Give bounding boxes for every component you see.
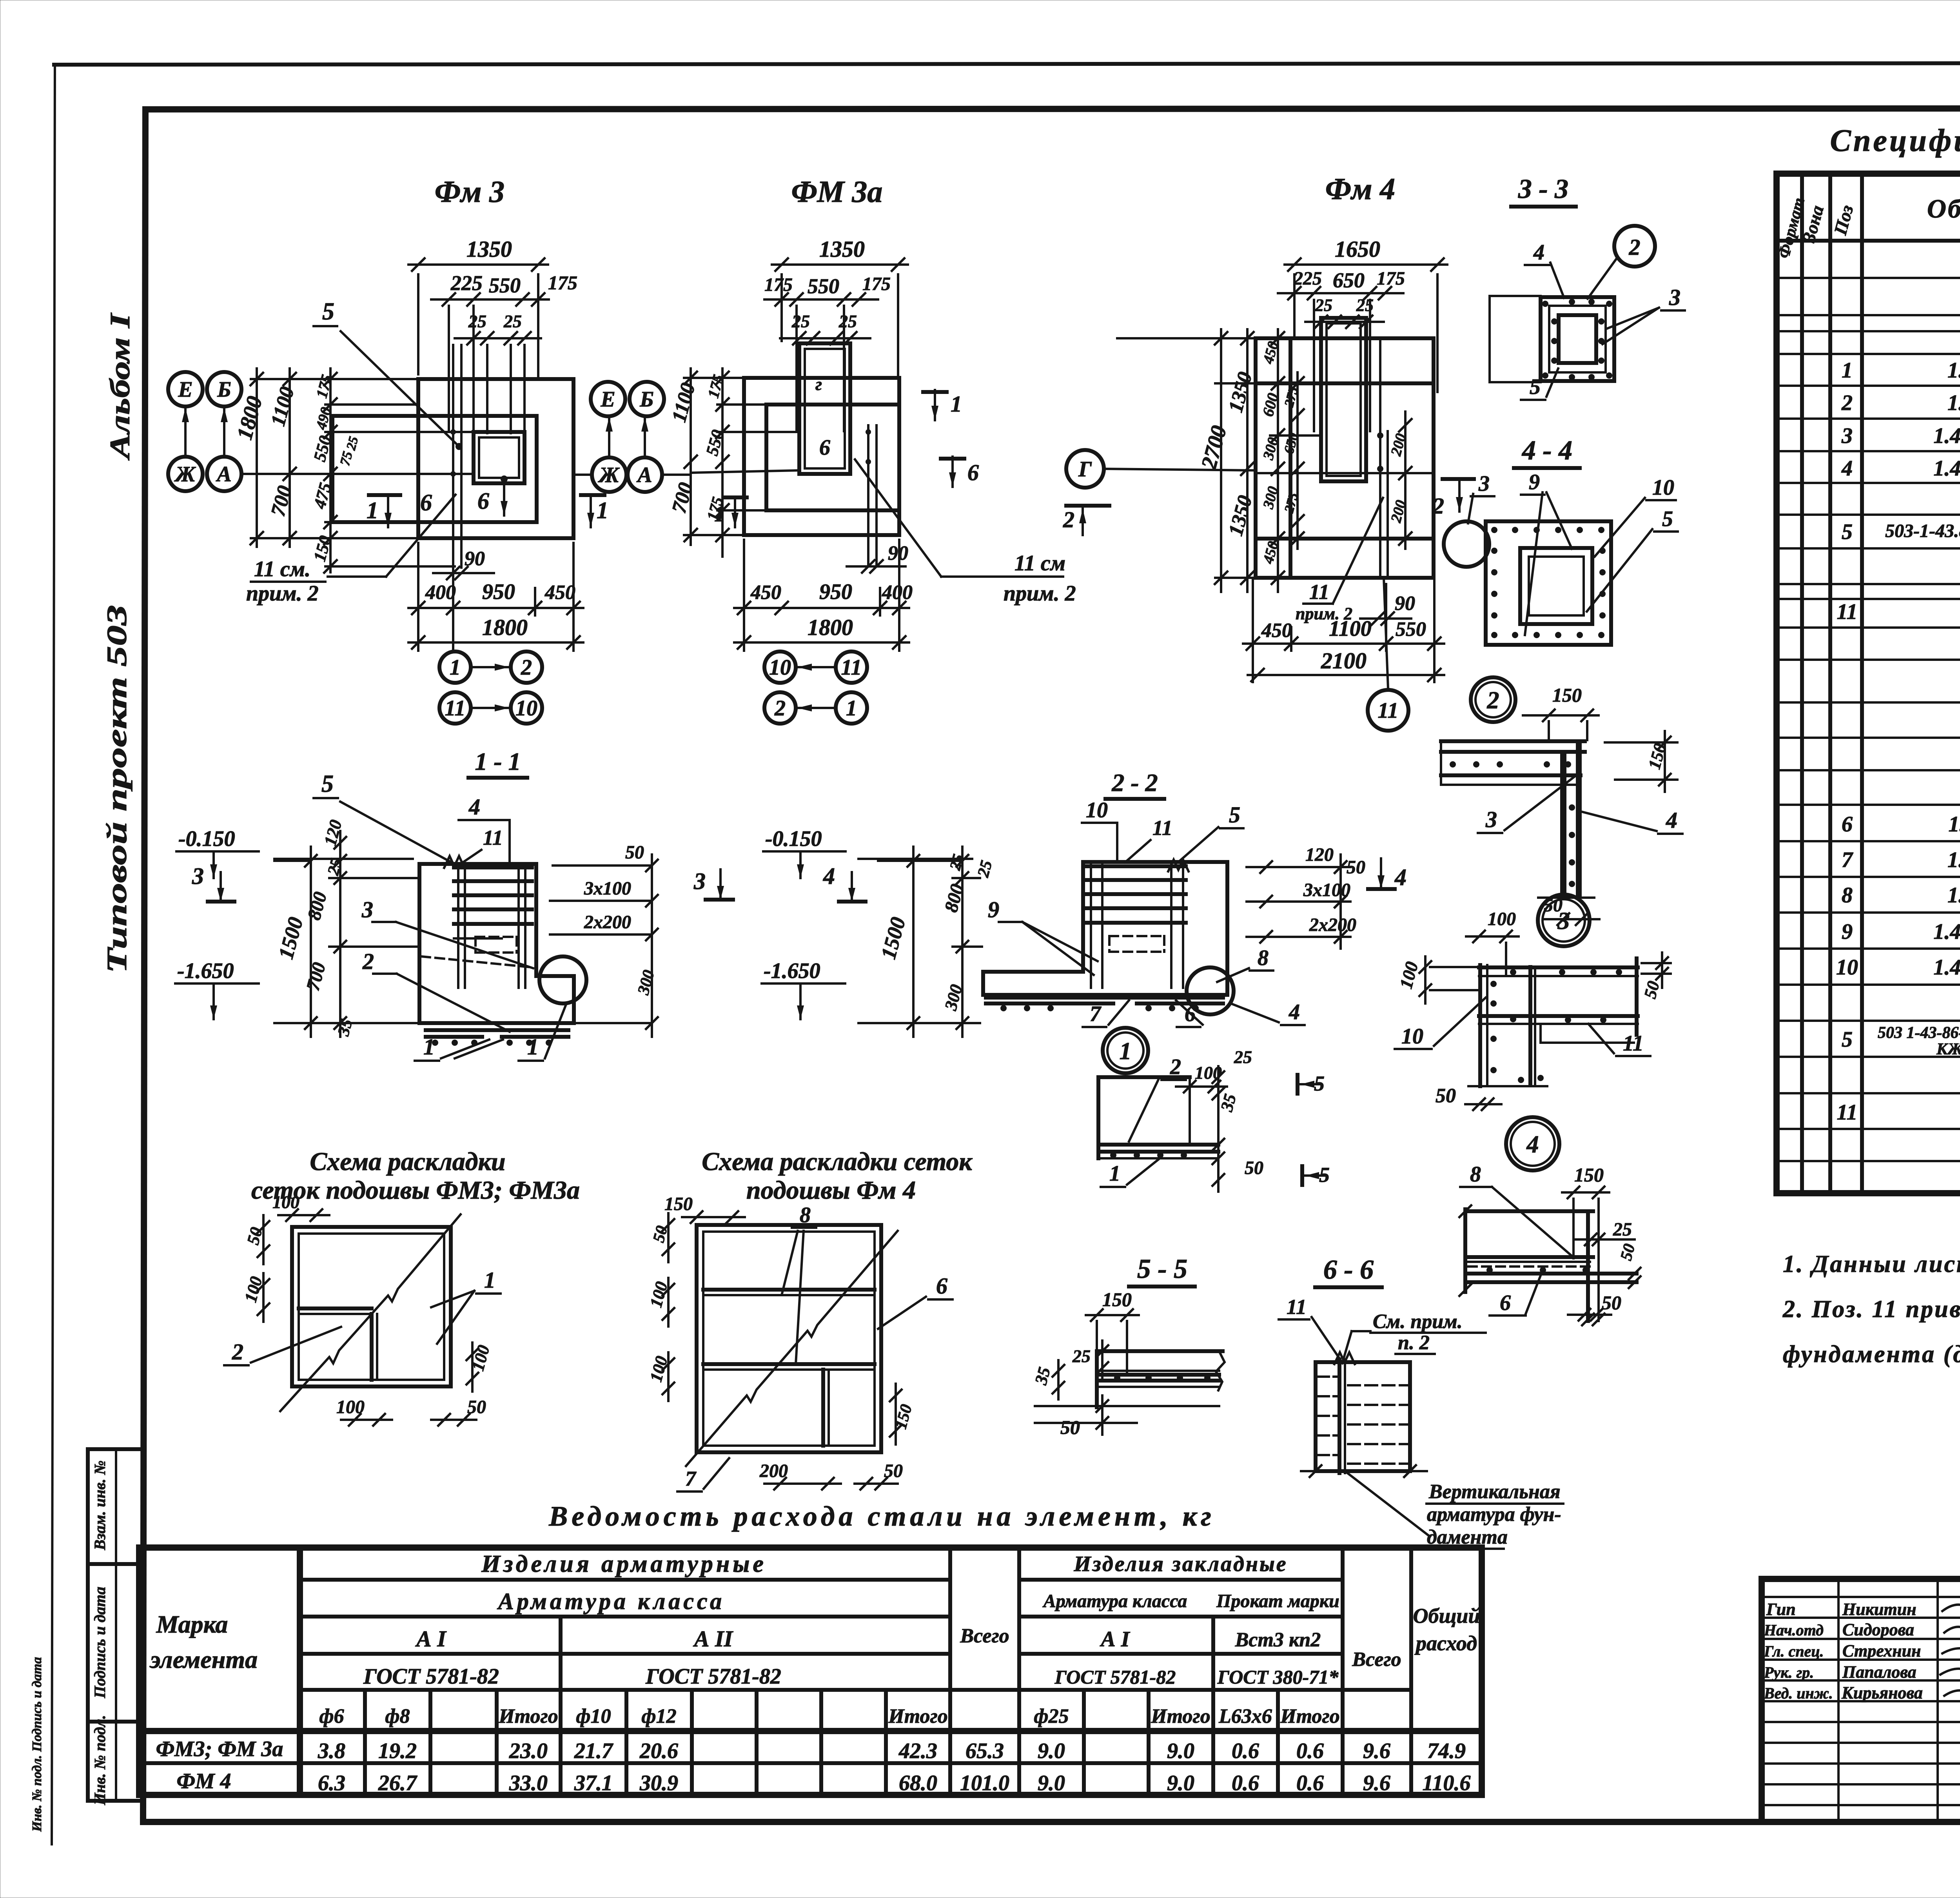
- svg-text:4: 4: [1289, 1000, 1300, 1024]
- svg-text:21.7: 21.7: [574, 1739, 613, 1763]
- svg-text:11: 11: [1837, 1100, 1858, 1125]
- svg-text:фундамента (для молниеотвода): фундамента (для молниеотвода).: [1783, 1341, 1960, 1368]
- svg-text:4: 4: [1394, 864, 1406, 890]
- svg-text:А I: А I: [1100, 1627, 1130, 1651]
- svg-text:800: 800: [303, 890, 331, 922]
- svg-text:2: 2: [774, 696, 786, 720]
- svg-text:25: 25: [974, 858, 996, 879]
- svg-text:1800: 1800: [808, 615, 853, 640]
- svg-text:1: 1: [1842, 358, 1853, 383]
- svg-text:прим. 2: прим. 2: [246, 581, 319, 606]
- svg-text:4: 4: [1666, 807, 1677, 833]
- svg-text:Ведомость расхода стали н: Ведомость расхода стали на элемент, кг: [548, 1501, 1215, 1532]
- svg-text:1: 1: [951, 391, 962, 417]
- svg-text:0.6: 0.6: [1232, 1771, 1259, 1795]
- svg-text:2: 2: [1841, 391, 1853, 415]
- svg-text:2х200: 2х200: [1309, 915, 1356, 935]
- svg-text:1: 1: [527, 1034, 539, 1060]
- notes: [1782, 1251, 1960, 1368]
- svg-text:65.3: 65.3: [965, 1739, 1004, 1763]
- svg-text:2: 2: [1629, 234, 1641, 260]
- svg-text:2х200: 2х200: [584, 912, 631, 933]
- svg-text:90: 90: [1395, 592, 1415, 615]
- svg-text:100: 100: [1396, 960, 1422, 991]
- svg-text:3: 3: [192, 863, 204, 889]
- svg-text:700: 700: [302, 960, 330, 993]
- svg-text:ГОСТ 5781-82: ГОСТ 5781-82: [1054, 1666, 1176, 1688]
- svg-text:25: 25: [503, 311, 522, 331]
- svg-text:3: 3: [1485, 807, 1497, 832]
- section 5-5: [1031, 1254, 1225, 1438]
- svg-text:9: 9: [988, 897, 999, 922]
- svg-text:6: 6: [936, 1273, 947, 1299]
- svg-text:25: 25: [1315, 296, 1332, 315]
- bottom-left attribute boxes: [30, 1449, 144, 1832]
- svg-text:1350: 1350: [1225, 370, 1257, 415]
- svg-text:-0.150: -0.150: [178, 827, 235, 851]
- svg-text:68.0: 68.0: [899, 1771, 937, 1795]
- svg-text:1500: 1500: [877, 915, 910, 962]
- svg-text:100: 100: [336, 1397, 365, 1417]
- svg-text:50: 50: [1640, 979, 1663, 1000]
- svg-text:25: 25: [1234, 1047, 1252, 1067]
- svg-text:1: 1: [1109, 1161, 1120, 1186]
- svg-text:175: 175: [312, 373, 336, 400]
- svg-text:п. 2: п. 2: [1398, 1332, 1430, 1354]
- svg-text:225: 225: [1293, 268, 1322, 289]
- scheme раскладки сеток ФМ3: [224, 1147, 580, 1426]
- svg-text:элемента: элемента: [149, 1646, 258, 1673]
- svg-text:503-1-43.86-КНЧ-МН24.МН25: 503-1-43.86-КНЧ-МН24.МН25: [1885, 521, 1960, 541]
- svg-text:120: 120: [1305, 844, 1334, 865]
- ФМ4 foundation plan: [1063, 172, 1474, 731]
- section 6-6: [1279, 1255, 1563, 1549]
- svg-text:Поз: Поз: [1830, 203, 1857, 238]
- svg-text:100: 100: [1488, 909, 1516, 929]
- section 4-4: [1444, 435, 1678, 645]
- svg-text:50: 50: [467, 1397, 486, 1417]
- svg-text:А: А: [636, 463, 652, 487]
- svg-text:42.3: 42.3: [898, 1739, 937, 1763]
- svg-text:150: 150: [1102, 1288, 1132, 1310]
- svg-text:11: 11: [483, 826, 503, 849]
- svg-text:арматура фун-: арматура фун-: [1427, 1503, 1561, 1526]
- svg-text:2: 2: [1432, 493, 1444, 519]
- svg-text:8: 8: [800, 1203, 811, 1227]
- svg-text:Схема раскладки сеток: Схема раскладки сеток: [702, 1147, 973, 1176]
- svg-text:5 - 5: 5 - 5: [1137, 1254, 1187, 1284]
- svg-text:37.1: 37.1: [574, 1771, 613, 1795]
- svg-text:5: 5: [1314, 1072, 1325, 1095]
- svg-text:Изделия закладные: Изделия закладные: [1073, 1552, 1287, 1576]
- svg-text:Прокат марки: Прокат марки: [1216, 1591, 1339, 1611]
- svg-text:8: 8: [1842, 883, 1853, 907]
- svg-text:3х100: 3х100: [584, 878, 631, 899]
- svg-text:6 - 6: 6 - 6: [1323, 1255, 1374, 1285]
- svg-text:11: 11: [1287, 1295, 1307, 1319]
- svg-text:11: 11: [1837, 600, 1858, 624]
- svg-text:Сидорова: Сидорова: [1842, 1620, 1914, 1639]
- svg-text:1: 1: [367, 497, 378, 523]
- svg-text:Подпись и дата: Подпись и дата: [91, 1587, 109, 1698]
- svg-text:1100: 1100: [668, 381, 700, 425]
- svg-text:150: 150: [1574, 1164, 1604, 1186]
- svg-text:4 - 4: 4 - 4: [1521, 435, 1572, 466]
- svg-text:3: 3: [1841, 424, 1853, 448]
- svg-text:25: 25: [838, 311, 857, 331]
- svg-text:сеток подошвы ФМ3; ФМ3а: сеток подошвы ФМ3; ФМ3а: [251, 1176, 580, 1205]
- svg-text:Гл. спец.: Гл. спец.: [1764, 1642, 1824, 1660]
- svg-text:Инв. № подл.: Инв. № подл.: [91, 1715, 109, 1805]
- svg-text:ф25: ф25: [1034, 1705, 1069, 1727]
- horizontal header lines: [300, 1578, 950, 1582]
- svg-text:Е: Е: [178, 377, 192, 402]
- svg-text:11: 11: [1152, 816, 1172, 840]
- svg-text:26.7: 26.7: [378, 1771, 417, 1795]
- svg-text:1: 1: [597, 497, 608, 523]
- svg-text:11: 11: [1309, 580, 1329, 604]
- svg-text:4: 4: [1526, 1131, 1539, 1158]
- svg-text:Папалова: Папалова: [1842, 1662, 1916, 1682]
- svg-text:23.0: 23.0: [509, 1739, 548, 1763]
- svg-text:2700: 2700: [1196, 423, 1231, 472]
- svg-text:2100: 2100: [1321, 648, 1367, 673]
- svg-text:1.412-1/77 вып.3: 1.412-1/77 вып.3: [1933, 955, 1960, 980]
- svg-text:1: 1: [484, 1267, 495, 1293]
- svg-text:74.9: 74.9: [1427, 1739, 1466, 1763]
- svg-text:50: 50: [884, 1461, 903, 1481]
- svg-text:А: А: [216, 462, 231, 486]
- svg-text:ГОСТ 380-71*: ГОСТ 380-71*: [1217, 1666, 1339, 1688]
- svg-text:11 см: 11 см: [1014, 551, 1065, 575]
- svg-text:ф6: ф6: [319, 1705, 344, 1727]
- svg-text:9: 9: [1529, 470, 1540, 494]
- svg-text:Инв. № подл. Подпись и дата: Инв. № подл. Подпись и дата: [30, 1657, 44, 1832]
- svg-text:9.0: 9.0: [1038, 1771, 1065, 1795]
- svg-text:3: 3: [361, 897, 373, 922]
- svg-text:1650: 1650: [1335, 236, 1380, 262]
- svg-text:101.0: 101.0: [960, 1771, 1009, 1795]
- svg-text:175: 175: [548, 272, 577, 294]
- svg-text:Вст3 кп2: Вст3 кп2: [1235, 1629, 1321, 1651]
- svg-text:1: 1: [846, 696, 857, 720]
- svg-text:3: 3: [1669, 285, 1681, 310]
- svg-text:5: 5: [1229, 802, 1240, 827]
- detail 1: [1098, 1028, 1330, 1192]
- svg-text:прим. 2: прим. 2: [1004, 581, 1076, 606]
- svg-text:расход: расход: [1414, 1631, 1477, 1655]
- svg-text:Итого: Итого: [888, 1705, 947, 1727]
- svg-text:Спецификация фундаментов Фм3: Спецификация фундаментов Фм3, Фм4: [1830, 123, 1960, 158]
- svg-text:Всего: Всего: [960, 1625, 1009, 1647]
- svg-text:См. прим.: См. прим.: [1373, 1310, 1463, 1333]
- section 2-2: [762, 769, 1406, 1037]
- svg-text:2: 2: [1170, 1055, 1181, 1079]
- svg-text:25: 25: [344, 435, 361, 452]
- svg-text:19.2: 19.2: [378, 1739, 417, 1763]
- svg-text:Общий: Общий: [1413, 1604, 1480, 1628]
- verticals: [365, 1548, 1411, 1795]
- svg-text:10: 10: [769, 655, 791, 680]
- svg-text:Арматура класса: Арматура класса: [1042, 1591, 1187, 1611]
- svg-text:Типовой проект 503: Типовой проект 503: [101, 605, 132, 973]
- svg-text:700: 700: [267, 483, 296, 519]
- svg-text:Рук. гр.: Рук. гр.: [1764, 1664, 1814, 1681]
- svg-text:25: 25: [1072, 1346, 1091, 1366]
- svg-text:50: 50: [1617, 1242, 1639, 1262]
- svg-text:225: 225: [450, 271, 483, 295]
- svg-text:4: 4: [1841, 456, 1853, 481]
- svg-text:Итого: Итого: [1151, 1705, 1210, 1727]
- svg-text:8: 8: [1258, 946, 1269, 970]
- section 1-1: [175, 748, 733, 1061]
- svg-text:КЖИ МН24.МН25: КЖИ МН24.МН25: [1936, 1040, 1960, 1058]
- svg-text:2. Поз. 11 приварить к вер: 2. Поз. 11 приварить к вертикальной арма…: [1782, 1296, 1960, 1323]
- svg-text:150: 150: [664, 1194, 693, 1214]
- svg-text:-0.150: -0.150: [765, 827, 822, 851]
- svg-text:ГОСТ 5781-82: ГОСТ 5781-82: [645, 1664, 781, 1689]
- svg-text:50: 50: [1245, 1158, 1263, 1178]
- svg-text:3: 3: [1557, 908, 1570, 934]
- svg-text:8: 8: [1470, 1162, 1481, 1187]
- svg-text:Схема раскладки: Схема раскладки: [310, 1147, 505, 1176]
- svg-text:5: 5: [1842, 1027, 1853, 1052]
- detail 3: [1395, 895, 1671, 1110]
- svg-text:0.6: 0.6: [1232, 1739, 1259, 1763]
- svg-text:9.0: 9.0: [1167, 1771, 1194, 1795]
- svg-text:175: 175: [764, 274, 793, 295]
- svg-text:2: 2: [1487, 687, 1499, 714]
- svg-text:9.0: 9.0: [1167, 1739, 1194, 1763]
- svg-text:700: 700: [668, 480, 697, 515]
- svg-text:1.412-1/77 вып.3: 1.412-1/77 вып.3: [1933, 424, 1960, 448]
- svg-text:10: 10: [1086, 798, 1108, 822]
- svg-text:3.8: 3.8: [318, 1739, 345, 1763]
- svg-text:450: 450: [750, 581, 781, 604]
- svg-text:33.0: 33.0: [509, 1771, 548, 1795]
- svg-text:2: 2: [1063, 507, 1074, 532]
- svg-text:9: 9: [1842, 920, 1853, 944]
- svg-text:Г: Г: [1078, 457, 1092, 481]
- svg-text:50: 50: [1602, 1292, 1621, 1314]
- svg-text:1.412-1/77 вып.3: 1.412-1/77 вып.3: [1933, 920, 1960, 944]
- svg-text:Вертикальная: Вертикальная: [1428, 1481, 1561, 1503]
- svg-text:г: г: [815, 374, 822, 394]
- svg-text:110.6: 110.6: [1423, 1771, 1471, 1795]
- svg-text:650: 650: [1333, 269, 1365, 292]
- svg-text:1.410-2 вып.1: 1.410-2 вып.1: [1947, 391, 1960, 415]
- svg-text:550: 550: [808, 274, 839, 298]
- svg-text:5: 5: [321, 771, 334, 797]
- svg-text:Ж: Ж: [597, 463, 620, 487]
- svg-text:25: 25: [1613, 1219, 1632, 1240]
- detail 2: [1441, 677, 1682, 925]
- svg-text:5: 5: [1842, 520, 1853, 544]
- ФМ3а foundation plan: [668, 174, 1076, 724]
- svg-text:150: 150: [1552, 684, 1582, 706]
- svg-text:Б: Б: [217, 377, 231, 402]
- svg-text:4: 4: [823, 863, 835, 889]
- svg-text:25: 25: [1356, 296, 1374, 315]
- svg-text:2: 2: [521, 655, 532, 680]
- svg-text:100: 100: [272, 1192, 299, 1212]
- svg-text:1100: 1100: [267, 385, 299, 428]
- svg-text:35: 35: [1217, 1092, 1240, 1114]
- svg-text:6: 6: [1842, 812, 1853, 836]
- left margin rotated captions: [101, 312, 136, 973]
- svg-text:6: 6: [420, 490, 432, 515]
- svg-text:Арматура класса: Арматура класса: [497, 1588, 725, 1614]
- svg-text:-1.650: -1.650: [764, 959, 820, 983]
- svg-text:50: 50: [1060, 1416, 1080, 1438]
- svg-text:1.410-2 вып.1: 1.410-2 вып.1: [1947, 883, 1960, 907]
- svg-text:400: 400: [882, 581, 913, 604]
- svg-text:Вед. инж.: Вед. инж.: [1764, 1684, 1833, 1702]
- svg-text:150: 150: [1644, 741, 1670, 771]
- svg-text:10: 10: [515, 696, 537, 720]
- svg-text:1: 1: [1120, 1038, 1132, 1065]
- svg-text:Альбом I: Альбом I: [104, 312, 136, 461]
- svg-text:Стрехнин: Стрехнин: [1842, 1641, 1921, 1660]
- svg-text:550: 550: [1396, 618, 1426, 641]
- svg-text:ф10: ф10: [576, 1705, 611, 1727]
- svg-text:2: 2: [362, 949, 374, 974]
- svg-text:0.6: 0.6: [1296, 1739, 1324, 1763]
- svg-text:950: 950: [819, 580, 852, 604]
- svg-text:25: 25: [468, 311, 486, 331]
- svg-text:А II: А II: [693, 1626, 734, 1651]
- svg-text:0.6: 0.6: [1296, 1771, 1324, 1795]
- svg-text:6: 6: [967, 460, 979, 485]
- svg-text:6: 6: [1500, 1291, 1511, 1315]
- svg-text:Гип: Гип: [1766, 1600, 1796, 1619]
- svg-text:7: 7: [1842, 848, 1853, 872]
- svg-text:Обозначение: Обозначение: [1927, 194, 1960, 223]
- svg-text:3: 3: [693, 868, 706, 894]
- svg-text:Нач.отд: Нач.отд: [1764, 1621, 1824, 1639]
- svg-text:Кирьянова: Кирьянова: [1841, 1683, 1923, 1702]
- ФМ3 foundation plan: [168, 174, 690, 724]
- svg-text:200: 200: [759, 1461, 788, 1481]
- svg-text:6: 6: [819, 435, 830, 460]
- svg-text:300: 300: [634, 968, 658, 997]
- svg-text:11: 11: [841, 655, 862, 680]
- svg-text:9.6: 9.6: [1363, 1771, 1390, 1795]
- svg-text:400: 400: [425, 581, 456, 604]
- svg-text:подошвы Фм 4: подошвы Фм 4: [746, 1176, 916, 1205]
- svg-text:Фм 3: Фм 3: [435, 174, 505, 209]
- svg-text:2 - 2: 2 - 2: [1111, 769, 1158, 797]
- row lines: [1777, 278, 1960, 1161]
- svg-text:ФМ 4: ФМ 4: [176, 1769, 231, 1793]
- svg-text:Марка: Марка: [156, 1610, 228, 1638]
- svg-text:20.6: 20.6: [639, 1739, 678, 1763]
- svg-text:ФМ 3а: ФМ 3а: [791, 174, 883, 209]
- svg-text:35: 35: [1031, 1365, 1054, 1387]
- svg-text:1500: 1500: [274, 915, 308, 962]
- svg-text:503 1-43-86-: 503 1-43-86-: [1878, 1024, 1960, 1042]
- svg-text:9.0: 9.0: [1038, 1739, 1065, 1763]
- svg-text:3 - 3: 3 - 3: [1518, 174, 1568, 204]
- svg-text:Б: Б: [639, 387, 654, 412]
- svg-text:7: 7: [685, 1467, 697, 1490]
- svg-text:11: 11: [445, 696, 466, 720]
- svg-text:ГОСТ 5781-82: ГОСТ 5781-82: [363, 1664, 499, 1689]
- svg-text:450: 450: [1261, 619, 1292, 642]
- svg-text:Ж: Ж: [174, 462, 196, 486]
- svg-text:11: 11: [1378, 699, 1399, 723]
- svg-text:1350: 1350: [1225, 493, 1257, 538]
- svg-text:5: 5: [322, 298, 334, 325]
- svg-text:Взам. инв. №: Взам. инв. №: [91, 1461, 109, 1551]
- svg-text:ф8: ф8: [385, 1705, 410, 1727]
- svg-text:А I: А I: [415, 1626, 447, 1651]
- svg-text:50: 50: [1436, 1085, 1456, 1107]
- svg-text:1.412-1/77 вып.3: 1.412-1/77 вып.3: [1933, 456, 1960, 481]
- svg-text:50: 50: [625, 842, 644, 863]
- svg-text:10: 10: [1652, 475, 1674, 500]
- svg-text:1350: 1350: [466, 236, 512, 262]
- section 3-3: [1490, 174, 1685, 400]
- svg-text:1.410 2 вып.1: 1.410 2 вып.1: [1948, 812, 1960, 836]
- svg-text:-1.650: -1.650: [177, 959, 234, 983]
- svg-text:4: 4: [1533, 240, 1544, 265]
- svg-text:11 см.: 11 см.: [254, 557, 310, 581]
- svg-text:35: 35: [334, 1017, 356, 1038]
- svg-text:Всего: Всего: [1352, 1648, 1401, 1671]
- svg-text:50: 50: [1347, 857, 1365, 878]
- svg-text:1: 1: [423, 1034, 435, 1060]
- svg-text:Фм 4: Фм 4: [1325, 172, 1395, 206]
- svg-text:1800: 1800: [482, 615, 528, 640]
- svg-text:1: 1: [450, 655, 461, 680]
- svg-text:950: 950: [482, 580, 515, 604]
- svg-text:11: 11: [1623, 1031, 1644, 1056]
- detail 4: [1459, 1117, 1641, 1325]
- svg-text:1.410-2 вып.1: 1.410-2 вып.1: [1947, 358, 1960, 383]
- svg-text:550: 550: [489, 274, 521, 297]
- svg-text:Никитин: Никитин: [1842, 1600, 1916, 1619]
- svg-text:25: 25: [791, 311, 810, 331]
- svg-text:Изделия арматурные: Изделия арматурные: [481, 1551, 767, 1577]
- svg-text:1 - 1: 1 - 1: [475, 748, 521, 775]
- svg-text:450: 450: [544, 581, 575, 604]
- svg-text:2: 2: [232, 1339, 243, 1365]
- svg-text:10: 10: [1836, 955, 1858, 980]
- svg-text:1.410-2 вып.1: 1.410-2 вып.1: [1947, 848, 1960, 872]
- svg-text:1100: 1100: [1329, 617, 1372, 641]
- svg-text:ФМ3; ФМ 3а: ФМ3; ФМ 3а: [156, 1737, 283, 1761]
- svg-text:120: 120: [320, 818, 345, 847]
- svg-text:Итого: Итого: [498, 1705, 558, 1727]
- svg-text:9.6: 9.6: [1363, 1739, 1390, 1763]
- row contents: [1836, 249, 1960, 1190]
- svg-text:ф12: ф12: [641, 1705, 676, 1727]
- signatures squiggles: [1940, 1599, 1960, 1699]
- svg-text:1350: 1350: [819, 236, 865, 262]
- svg-text:4: 4: [468, 794, 480, 820]
- svg-text:800: 800: [940, 882, 968, 915]
- svg-text:5: 5: [1319, 1163, 1330, 1187]
- svg-text:Итого: Итого: [1280, 1705, 1339, 1727]
- data rows: [156, 1737, 1471, 1795]
- svg-text:6.3: 6.3: [318, 1771, 345, 1795]
- svg-text:Е: Е: [600, 387, 615, 412]
- scheme раскладки сеток ФМ4: [646, 1147, 973, 1492]
- svg-text:175: 175: [862, 274, 891, 294]
- svg-text:6: 6: [477, 488, 489, 514]
- svg-text:7: 7: [1090, 1002, 1102, 1026]
